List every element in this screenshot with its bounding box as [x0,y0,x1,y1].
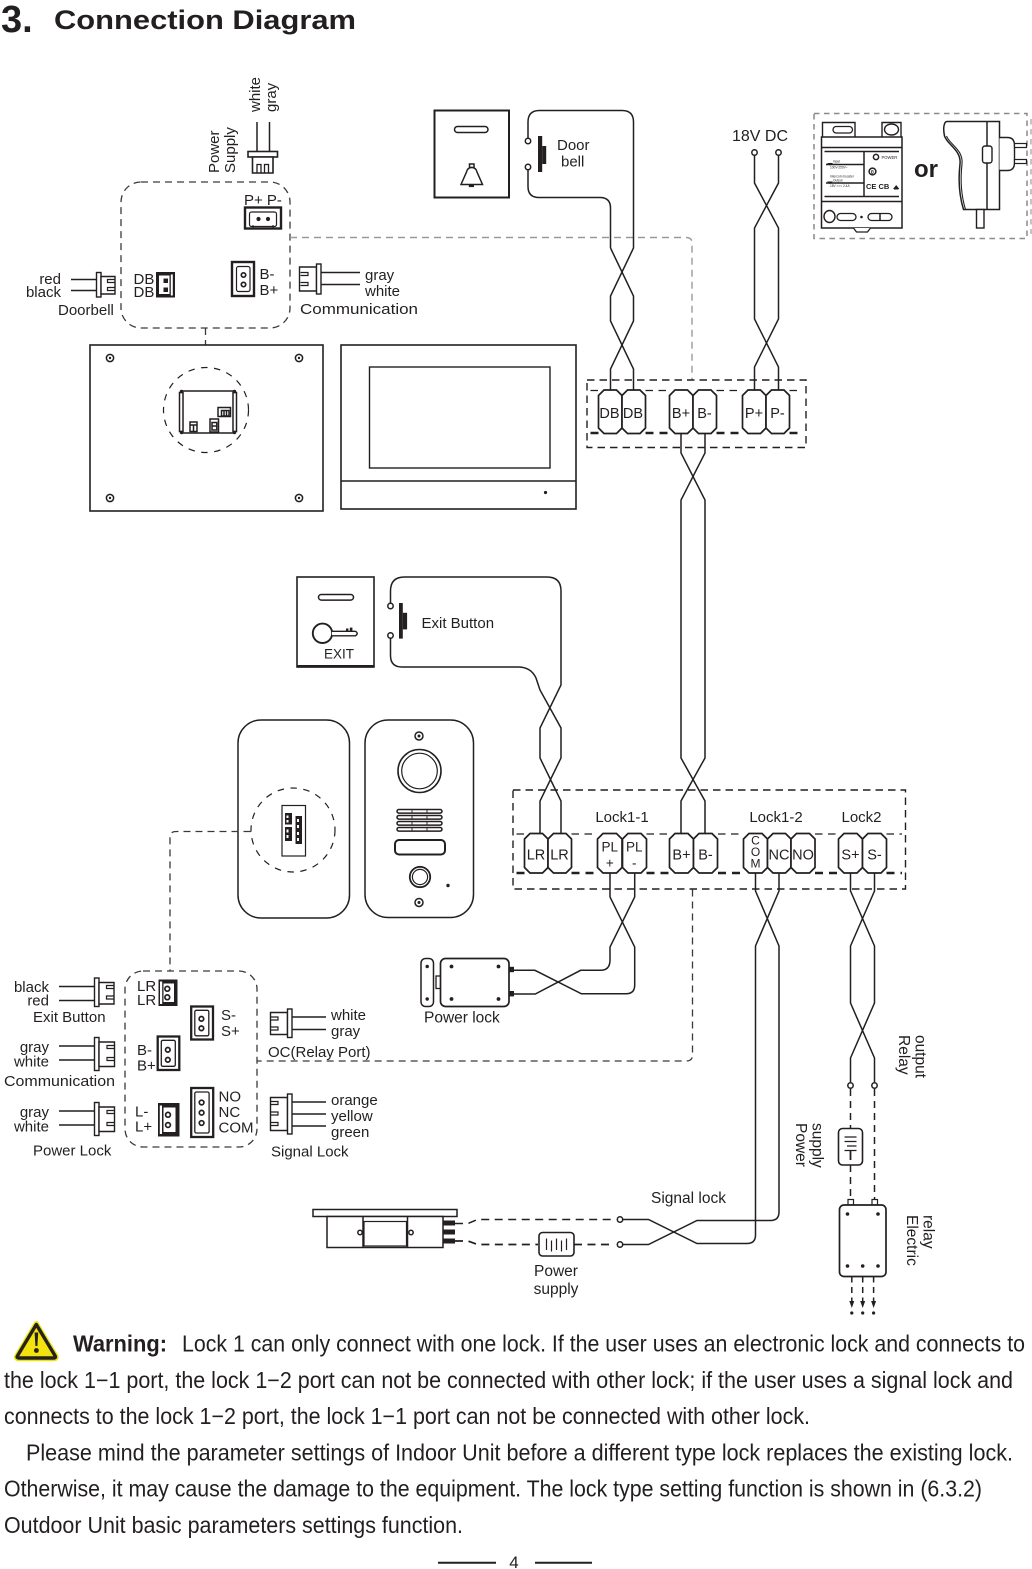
svg-text:Signal Lock: Signal Lock [271,1144,349,1161]
SEC-LOWERLEFT [4,971,378,1161]
outdoor screw bottom [415,899,423,907]
wire white (power lock) [59,1124,95,1126]
SEC-MONITORS [90,345,576,511]
exit terminal bottom [388,633,393,638]
signal lock body [313,1210,457,1248]
SEC-DOORBELL [435,111,634,391]
svg-text:Door: Door [557,137,590,154]
svg-text:white: white [13,1054,49,1071]
wire green [292,1125,326,1127]
svg-text:LR: LR [137,992,156,1009]
svg-text:Outdoor Unit basic parameters: Outdoor Unit basic parameters settings f… [4,1512,463,1538]
communication plug [300,264,322,294]
svg-text:Exit Button: Exit Button [422,615,495,632]
connector B-B+ socket [232,262,254,296]
svg-text:connects to the lock 1−2 port,: connects to the lock 1−2 port, the lock … [4,1403,810,1429]
twisted pair 18V wire A [755,156,779,391]
svg-text:0: 0 [871,170,874,176]
dashed circle outdoor mounting [251,788,335,872]
svg-text:B-: B- [697,406,712,422]
door bell slot [455,127,489,133]
doorbell terminal bottom [525,164,530,169]
SEC-TOPHARNESS [26,77,692,380]
svg-text:white: white [330,1007,366,1024]
connector LR (black header) [159,980,178,1007]
terminal S- [863,834,887,874]
svg-text:Signal lock: Signal lock [651,1190,726,1207]
terminal 18V + [752,150,757,155]
svg-text:-: - [632,856,637,871]
wire doorbell bottom to DB [528,170,611,248]
svg-text:gray: gray [263,82,280,112]
svg-text:supply: supply [534,1281,579,1298]
svg-text:white: white [364,283,400,300]
outdoor bracket connectors [282,806,306,857]
terminal PL- [623,834,647,874]
svg-text:Power: Power [792,1123,809,1167]
svg-text:S+: S+ [221,1023,240,1040]
doorbell push button symbol [538,136,546,172]
connector S socket [191,1007,213,1040]
dashed stub to back panel [205,328,207,372]
wire red (exit) [59,1000,95,1002]
dashed box power options [814,114,1027,239]
power lock plug [95,1103,115,1136]
indoor monitor back panel [90,345,323,511]
screw bottom-left [106,494,113,501]
svg-text:18V === 2.4A: 18V === 2.4A [830,184,850,188]
terminal B+ (strip2) [670,834,694,874]
dashed wire power supply symbol to relay [850,1165,852,1199]
terminal DB (1) [599,390,623,434]
svg-text:Power Lock: Power Lock [33,1143,112,1160]
power supply symbol (relay) [839,1129,863,1166]
svg-text:B-: B- [137,1042,152,1059]
exit button box [297,577,374,667]
dashed rail bottom strip2 [517,872,903,875]
svg-text:Communication: Communication [4,1073,115,1090]
dashed page edge mark [1030,119,1032,234]
communication plug (lower) [95,1038,115,1071]
wire gray (OC) [292,1029,326,1031]
wire white (comm lower) [59,1059,95,1061]
svg-text:COM: COM [219,1120,254,1137]
svg-text:or: or [914,156,938,183]
svg-text:S-: S- [221,1007,236,1024]
outdoor speaker grille [397,810,442,832]
svg-text:Output: Output [833,179,843,183]
wire doorbell top to DB [528,111,634,184]
dashed circle mounting area [164,368,249,453]
svg-text:NC: NC [769,848,790,864]
svg-text:relay: relay [920,1215,937,1249]
wire orange [292,1101,326,1103]
svg-text:gray: gray [365,267,395,284]
dashed box monitor connectors [121,182,290,328]
door bell box [435,111,510,198]
svg-text:NC: NC [219,1104,241,1121]
terminal B- (strip2) [694,834,718,874]
wire gray to power plug [269,122,271,152]
dashed wire power supply to terminal [574,1244,612,1246]
svg-text:DB: DB [623,406,643,422]
svg-text:3.: 3. [1,0,33,41]
dashed box terminal strip 2 [513,790,906,889]
wall plug adapter [944,122,1027,229]
terminal LR (1) [525,834,549,874]
outdoor camera [398,750,441,793]
svg-text:Warning:: Warning: [73,1331,167,1357]
twisted pair S+ S- relay output [851,873,875,1082]
wire white to power plug [256,122,258,152]
wire yellow [292,1113,326,1115]
doorbell plug [97,273,116,298]
electric relay leads [849,1277,876,1315]
wire gray (power lock) [59,1110,95,1112]
svg-text:Communication: Communication [300,301,418,318]
svg-text:Power: Power [206,130,223,173]
terminal signal top [617,1217,622,1222]
svg-text:PL: PL [602,840,619,855]
signal lock plug [271,1094,293,1134]
wire COM down [748,873,779,1221]
wire white (communication) [321,284,360,286]
dashed rail top strip2 [517,833,903,835]
svg-text:green: green [331,1124,369,1141]
svg-text:Electric: Electric [903,1215,920,1266]
svg-text:white: white [13,1119,49,1136]
monitor mic dot [544,491,547,494]
svg-text:100V-250V~: 100V-250V~ [830,166,848,170]
dashed box terminal strip 1 [587,380,806,448]
dashed wire relay left to power supply symbol [850,1089,852,1128]
svg-text:+: + [606,856,614,871]
SEC-PSU [732,114,1031,391]
svg-text:Input: Input [833,160,840,164]
DIN rail power supply module [822,123,903,233]
svg-text:POWER: POWER [882,155,898,160]
wire PL+ to power lock [513,873,635,994]
svg-text:B+: B+ [672,406,690,422]
page footer rule right [535,1562,592,1564]
svg-text:OC(Relay Port): OC(Relay Port) [268,1044,371,1061]
indoor monitor front [341,345,576,509]
terminal B- [693,390,717,434]
wall bracket [180,390,237,434]
outdoor call button [410,867,430,887]
gray dashed association line to strip1 [290,238,692,381]
terminal COM [744,834,768,874]
warning triangle icon [16,1324,56,1359]
OC relay plug [271,1009,293,1038]
svg-text:S+: S+ [841,848,859,864]
SEC-BOTTOM [257,873,937,1315]
electric relay box [840,1200,887,1277]
SEC-STRIP2 [513,790,906,889]
connector NO NC COM socket [191,1088,213,1137]
twisted pair B bus wire A [681,434,705,834]
wire black (exit) [59,986,95,988]
terminal S+ [839,834,863,874]
terminal NC [768,834,792,874]
dashed wire signal lock bottom to power supply [455,1241,538,1245]
connector DB (black header) [156,272,175,298]
svg-text:DB: DB [599,406,619,422]
svg-text:EXIT: EXIT [324,647,354,662]
terminal signal bottom [617,1242,622,1247]
svg-text:Lock2: Lock2 [841,809,881,826]
wire exit bottom loop [391,639,562,834]
wire gray (comm lower) [59,1045,95,1047]
terminal DB (2) [622,390,646,434]
svg-text:the lock 1−1 port, the lock 1−: the lock 1−1 port, the lock 1−2 port can… [4,1367,1013,1393]
svg-text:B+: B+ [260,282,279,299]
power lock strike plate [421,959,434,1007]
power supply box (signal lock) [539,1233,574,1257]
doorbell terminal top [525,138,530,143]
svg-text:CE CB: CE CB [866,182,890,191]
svg-text:PL: PL [626,840,643,855]
connector P+P- socket [245,208,281,229]
dashed wire signal lock top [455,1220,612,1224]
terminal P- [766,390,790,434]
wire signal cross bottom [623,1220,725,1244]
svg-text:Relay: Relay [895,1035,912,1075]
SEC-TITLE [1,0,356,41]
svg-text:white: white [247,77,264,113]
svg-text:Doorbell: Doorbell [58,302,114,319]
outdoor name window [395,840,445,855]
svg-text:Exit Button: Exit Button [33,1009,106,1026]
terminal relay output left [848,1083,853,1088]
svg-text:Lock 1 can only connect with o: Lock 1 can only connect with one lock. I… [182,1331,1025,1357]
screw top-right [295,354,302,361]
exit slot [319,595,354,601]
svg-text:B+: B+ [137,1058,156,1075]
svg-text:4: 4 [509,1553,518,1569]
outdoor screw top [415,732,423,740]
svg-text:Lock1-1: Lock1-1 [595,809,648,826]
SEC-WARNING [4,1324,1025,1569]
terminal 18V - [776,150,781,155]
svg-text:P+: P+ [745,406,763,422]
svg-text:S-: S- [867,848,882,864]
svg-text:orange: orange [331,1092,378,1109]
terminal P+ [743,390,767,434]
monitor bottom divider [341,480,576,482]
svg-text:Otherwise, it may cause the da: Otherwise, it may cause the damage to th… [4,1476,982,1502]
power lock body [436,959,514,1007]
key icon [313,624,357,643]
door bell icon [461,164,483,187]
svg-text:Lock1-2: Lock1-2 [749,809,802,826]
screw top-left [106,354,113,361]
wire NC down [725,873,779,1244]
svg-text:B-: B- [260,266,275,283]
dashed association line outdoor to connector group [170,832,251,972]
svg-text:L+: L+ [135,1119,152,1136]
svg-text:output: output [912,1035,929,1079]
svg-text:B-: B- [698,848,713,864]
dashed box lock connector group [125,971,257,1147]
SEC-EXIT [297,577,561,834]
exit terminal top [388,603,393,608]
twisted pair DB wire B [611,183,634,390]
svg-text:B+: B+ [672,848,690,864]
dashed rail bottom strip1 [591,432,803,435]
svg-text:red: red [27,993,49,1010]
outdoor unit back panel [238,720,350,918]
terminal NO [791,834,815,874]
SEC-OUTDOOR [170,720,474,971]
svg-text:yellow: yellow [331,1108,373,1125]
svg-text:LR: LR [550,848,569,864]
twisted pair DB wire A [611,248,634,390]
exit push button symbol [399,603,407,639]
wire exit top loop [391,577,562,834]
wire gray (communication) [321,272,360,274]
svg-text:DB: DB [134,284,155,301]
connector L (black header) [158,1103,180,1137]
outdoor unit front panel [365,720,474,918]
monitor screen [370,367,551,468]
svg-text:M: M [751,857,761,871]
outdoor mic dot [446,884,449,887]
svg-text:P-: P- [770,406,785,422]
svg-text:NO: NO [792,848,814,864]
svg-text:Connection Diagram: Connection Diagram [54,5,356,35]
svg-text:Please mind the parameter sett: Please mind the parameter settings of In… [26,1439,1013,1465]
power supply plug P [248,152,278,174]
svg-text:black: black [26,284,62,301]
screw bottom-right [295,494,302,501]
svg-text:supply: supply [809,1123,826,1168]
terminal PL+ [598,834,623,874]
wire PL- to power lock [513,873,635,994]
terminal B+ [670,390,694,434]
wire signal cross top [623,1221,748,1245]
dashed association line strip2 to lock connector group [257,890,693,1062]
exit button plug [95,978,115,1007]
svg-text:gray: gray [331,1023,361,1040]
svg-text:Supply: Supply [222,127,239,173]
svg-text:18V DC: 18V DC [732,128,788,145]
twisted pair 18V wire B [755,156,779,391]
terminal LR (2) [548,834,572,874]
twisted pair B bus wire B [681,434,705,834]
dashed rail top strip1 [591,390,803,392]
svg-text:LR: LR [527,848,546,864]
page footer rule left [438,1562,496,1564]
wire black [71,290,97,292]
SEC-STRIP1 [587,380,806,834]
svg-text:NO: NO [219,1089,242,1106]
svg-text:Power lock: Power lock [424,1010,500,1027]
connector B (black header) [158,1037,180,1071]
terminal relay output right [872,1083,877,1088]
wire white (OC) [292,1016,326,1018]
wire red [71,279,97,281]
svg-text:Power: Power [534,1263,578,1280]
dashed wire relay right to electric relay [874,1089,876,1199]
svg-text:bell: bell [561,154,584,171]
